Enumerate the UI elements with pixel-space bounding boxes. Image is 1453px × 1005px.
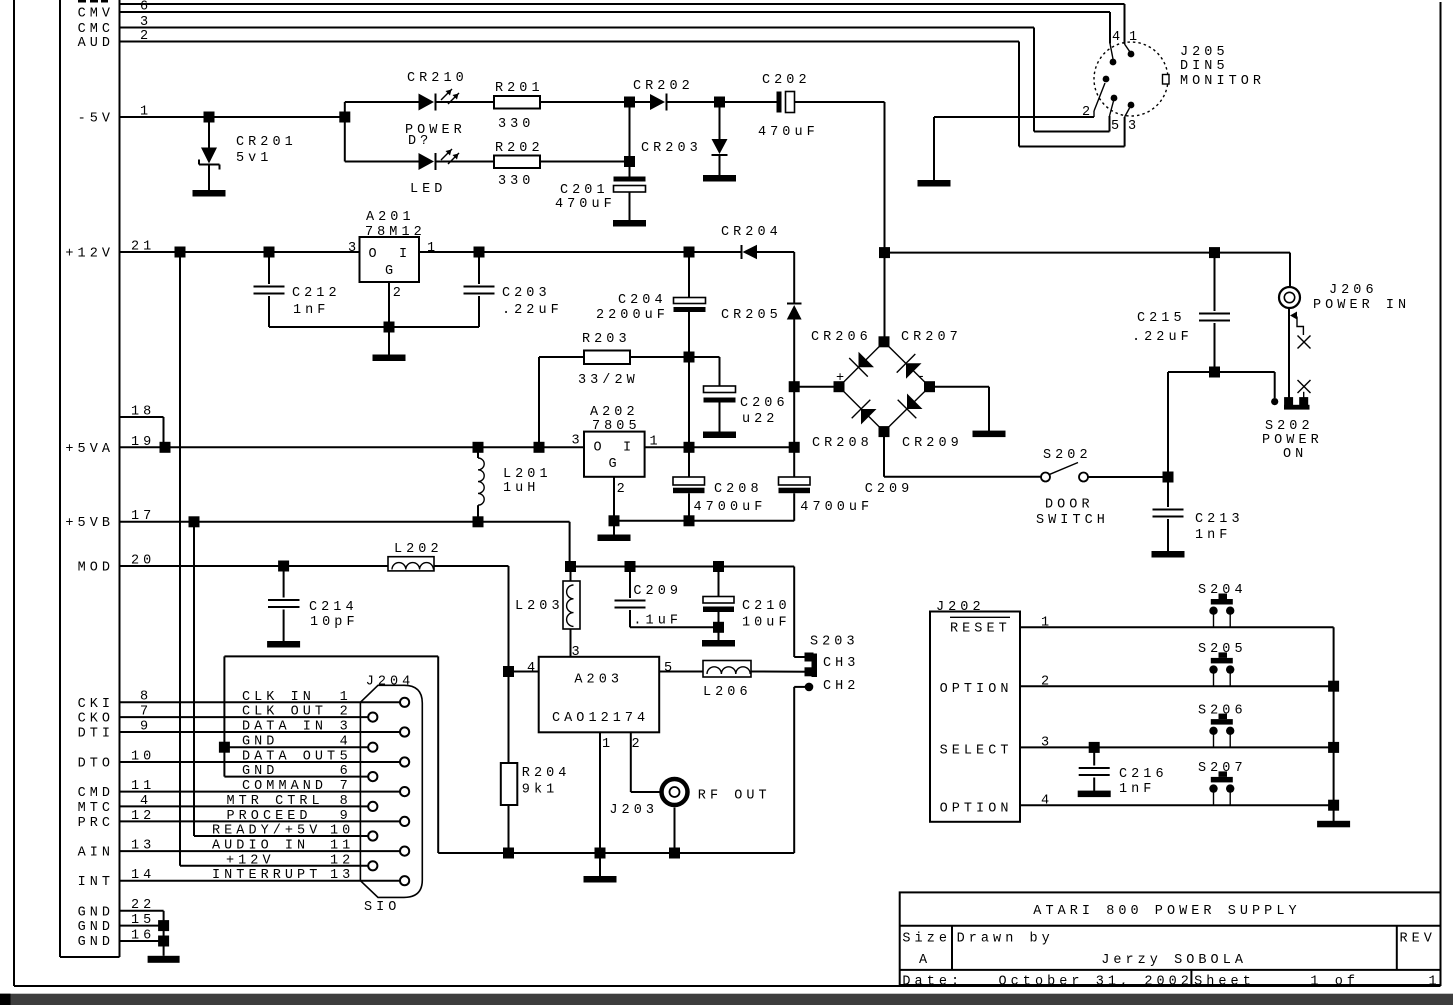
svg-text:8: 8 (340, 794, 352, 809)
svg-text:5: 5 (664, 661, 676, 676)
svg-text:470uF: 470uF (758, 125, 819, 140)
svg-text:2: 2 (632, 737, 644, 752)
svg-text:-: - (917, 370, 929, 385)
svg-text:O: O (369, 247, 381, 262)
svg-text:CR208: CR208 (812, 436, 873, 451)
svg-text:LED: LED (410, 182, 446, 197)
svg-text:R203: R203 (582, 332, 631, 347)
svg-text:C213: C213 (1195, 512, 1244, 527)
svg-text:MONITOR: MONITOR (1180, 74, 1265, 89)
svg-text:13: 13 (330, 868, 354, 883)
svg-text:6: 6 (340, 764, 352, 779)
svg-text:C210: C210 (742, 599, 791, 614)
svg-text:10pF: 10pF (310, 615, 359, 630)
svg-text:S207: S207 (1198, 761, 1247, 776)
svg-text:1: 1 (340, 690, 352, 705)
svg-text:S202: S202 (1043, 448, 1092, 463)
svg-text:5: 5 (1111, 119, 1123, 134)
svg-text:C215: C215 (1137, 311, 1186, 326)
svg-text:AUD: AUD (78, 36, 114, 51)
svg-text:C202: C202 (762, 73, 811, 88)
svg-text:5v1: 5v1 (236, 151, 272, 166)
svg-text:3: 3 (348, 241, 360, 256)
svg-text:SWITCH: SWITCH (1036, 513, 1109, 528)
svg-text:PROCEED: PROCEED (227, 809, 312, 824)
svg-text:READY/+5V: READY/+5V (212, 824, 321, 839)
svg-text:J202: J202 (936, 600, 985, 615)
svg-text:INT: INT (78, 875, 114, 890)
svg-text:3: 3 (340, 720, 352, 735)
svg-text:GND: GND (242, 735, 278, 750)
svg-text:A202: A202 (590, 405, 639, 420)
svg-text:S202: S202 (1265, 419, 1314, 434)
svg-text:J206: J206 (1329, 283, 1378, 298)
svg-text:REV: REV (1400, 932, 1436, 947)
svg-text:GND: GND (78, 920, 114, 935)
svg-text:+5VB: +5VB (65, 516, 114, 531)
svg-text:L203: L203 (515, 599, 564, 614)
svg-text:CH2: CH2 (823, 679, 859, 694)
svg-text:330: 330 (498, 174, 534, 189)
svg-text:J204: J204 (366, 675, 415, 690)
svg-text:C214: C214 (309, 600, 358, 615)
svg-text:C201: C201 (560, 183, 609, 198)
svg-text:RESET: RESET (950, 622, 1011, 637)
svg-text:33/2W: 33/2W (578, 373, 639, 388)
svg-text:12: 12 (330, 853, 354, 868)
svg-text:S206: S206 (1198, 704, 1247, 719)
svg-text:1 of: 1 of (1310, 975, 1359, 990)
svg-text:CR205: CR205 (721, 308, 782, 323)
svg-text:R202: R202 (495, 141, 544, 156)
svg-text:POWER: POWER (1262, 433, 1323, 448)
svg-text:3: 3 (572, 434, 584, 449)
svg-text:78M12: 78M12 (365, 225, 426, 240)
svg-text:G: G (385, 264, 397, 279)
svg-text:J203: J203 (609, 803, 658, 818)
svg-text:4700uF: 4700uF (694, 500, 767, 515)
svg-text:CAO12174: CAO12174 (552, 711, 649, 726)
svg-text:S204: S204 (1198, 583, 1247, 598)
svg-text:2: 2 (393, 286, 405, 301)
svg-text:C203: C203 (502, 286, 551, 301)
svg-text:INTERRUPT: INTERRUPT (212, 868, 321, 883)
svg-text:9: 9 (340, 809, 352, 824)
svg-text:+12V: +12V (65, 247, 114, 262)
svg-text:CR204: CR204 (721, 225, 782, 240)
svg-text:+12V: +12V (226, 853, 275, 868)
svg-text:4: 4 (1112, 30, 1124, 45)
svg-text:CR210: CR210 (407, 71, 468, 86)
svg-text:October 31, 2002: October 31, 2002 (999, 975, 1193, 990)
svg-text:C206: C206 (740, 396, 789, 411)
svg-text:1uH: 1uH (503, 481, 539, 496)
svg-text:PRC: PRC (78, 816, 114, 831)
svg-text:1: 1 (602, 737, 614, 752)
svg-text:2200uF: 2200uF (596, 308, 669, 323)
svg-text:CKO: CKO (78, 712, 114, 727)
svg-text:AUDIO IN: AUDIO IN (212, 839, 309, 854)
svg-text:CMC: CMC (78, 22, 114, 37)
svg-text:Size: Size (902, 932, 951, 947)
svg-text:MOD: MOD (78, 561, 114, 576)
svg-text:C204: C204 (618, 293, 667, 308)
svg-text:3: 3 (572, 645, 584, 660)
svg-text:1: 1 (1429, 975, 1441, 990)
svg-text:CR206: CR206 (811, 330, 872, 345)
svg-text:MTC: MTC (78, 801, 114, 816)
svg-text:O: O (594, 441, 606, 456)
svg-text:SELECT: SELECT (940, 744, 1013, 759)
svg-text:CR202: CR202 (633, 79, 694, 94)
svg-text:CLK IN: CLK IN (242, 690, 315, 705)
svg-text:4: 4 (1041, 794, 1053, 809)
svg-text:A201: A201 (366, 210, 415, 225)
svg-text:C209: C209 (633, 584, 682, 599)
svg-text:J205: J205 (1180, 45, 1229, 60)
svg-text:CR207: CR207 (901, 330, 962, 345)
svg-text:Jerzy SOBOLA: Jerzy SOBOLA (1101, 953, 1247, 968)
svg-text:G: G (609, 457, 621, 472)
svg-text:DTI: DTI (78, 727, 114, 742)
svg-text:D?: D? (408, 134, 432, 149)
svg-text:RF OUT: RF OUT (698, 789, 771, 804)
svg-text:10uF: 10uF (742, 616, 791, 631)
svg-text:I: I (623, 441, 635, 456)
svg-text:CKI: CKI (78, 697, 114, 712)
svg-text:-5V: -5V (78, 112, 114, 127)
svg-text:7: 7 (340, 779, 352, 794)
svg-text:S203: S203 (810, 635, 859, 650)
svg-text:CMV: CMV (78, 7, 114, 22)
svg-text:4700uF: 4700uF (800, 500, 873, 515)
svg-text:CMD: CMD (78, 786, 114, 801)
svg-text:1nF: 1nF (293, 303, 329, 318)
svg-text:CR203: CR203 (641, 141, 702, 156)
svg-text:1nF: 1nF (1195, 528, 1231, 543)
svg-text:C216: C216 (1119, 767, 1168, 782)
svg-text:5: 5 (340, 750, 352, 765)
svg-text:+5VA: +5VA (65, 442, 114, 457)
svg-text:1: 1 (1129, 30, 1141, 45)
svg-text:330: 330 (498, 117, 534, 132)
svg-text:4: 4 (340, 735, 352, 750)
svg-text:Date:: Date: (902, 975, 963, 990)
svg-text:2: 2 (340, 705, 352, 720)
svg-text:DIN5: DIN5 (1180, 59, 1229, 74)
svg-text:GND: GND (78, 905, 114, 920)
svg-text:I: I (399, 247, 411, 262)
svg-text:9k1: 9k1 (522, 782, 558, 797)
svg-text:ON: ON (1283, 447, 1307, 462)
svg-text:CR209: CR209 (902, 436, 963, 451)
svg-text:AIN: AIN (78, 846, 114, 861)
svg-text:Drawn by: Drawn by (957, 932, 1054, 947)
svg-text:GND: GND (78, 935, 114, 950)
svg-text:10: 10 (330, 824, 354, 839)
svg-text:.22uF: .22uF (502, 303, 563, 318)
svg-text:ATARI 800 POWER SUPPLY: ATARI 800 POWER SUPPLY (1033, 904, 1300, 919)
svg-text:1nF: 1nF (1119, 782, 1155, 797)
svg-text:470uF: 470uF (555, 197, 616, 212)
svg-text:DATA OUT: DATA OUT (242, 750, 339, 765)
svg-text:C212: C212 (292, 286, 341, 301)
svg-text:Sheet: Sheet (1194, 975, 1255, 990)
svg-text:S205: S205 (1198, 642, 1247, 657)
svg-text:L202: L202 (394, 542, 443, 557)
svg-text:L206: L206 (703, 685, 752, 700)
svg-text:7805: 7805 (592, 419, 641, 434)
svg-text:POWER IN: POWER IN (1313, 298, 1410, 313)
svg-text:CLK OUT: CLK OUT (242, 705, 327, 720)
svg-text:3: 3 (1128, 119, 1140, 134)
svg-text:CR201: CR201 (236, 135, 297, 150)
svg-text:2: 2 (1041, 675, 1053, 690)
svg-text:DATA IN: DATA IN (242, 720, 327, 735)
svg-text:.22uF: .22uF (1132, 330, 1193, 345)
svg-text:2: 2 (1082, 105, 1094, 120)
svg-text:.1uF: .1uF (633, 614, 682, 629)
svg-text:11: 11 (330, 839, 354, 854)
svg-text:CH3: CH3 (823, 656, 859, 671)
svg-text:GND: GND (242, 764, 278, 779)
svg-text:A203: A203 (574, 673, 623, 688)
svg-text:OPTION: OPTION (940, 682, 1013, 697)
svg-text:4: 4 (527, 661, 539, 676)
svg-text:MTR CTRL: MTR CTRL (227, 794, 324, 809)
svg-text:SIO: SIO (364, 900, 400, 915)
svg-text:1: 1 (427, 241, 439, 256)
svg-text:C209: C209 (865, 482, 914, 497)
svg-text:DOOR: DOOR (1045, 498, 1094, 513)
svg-text:2: 2 (617, 482, 629, 497)
svg-text:OPTION: OPTION (940, 802, 1013, 817)
svg-text:u22: u22 (742, 412, 778, 427)
svg-text:+: + (836, 371, 848, 386)
svg-text:A: A (919, 953, 931, 968)
svg-text:R204: R204 (522, 766, 571, 781)
svg-text:R201: R201 (495, 81, 544, 96)
svg-text:C208: C208 (714, 482, 763, 497)
svg-text:COMMAND: COMMAND (242, 779, 327, 794)
svg-text:DTO: DTO (78, 757, 114, 772)
svg-text:L201: L201 (503, 467, 552, 482)
